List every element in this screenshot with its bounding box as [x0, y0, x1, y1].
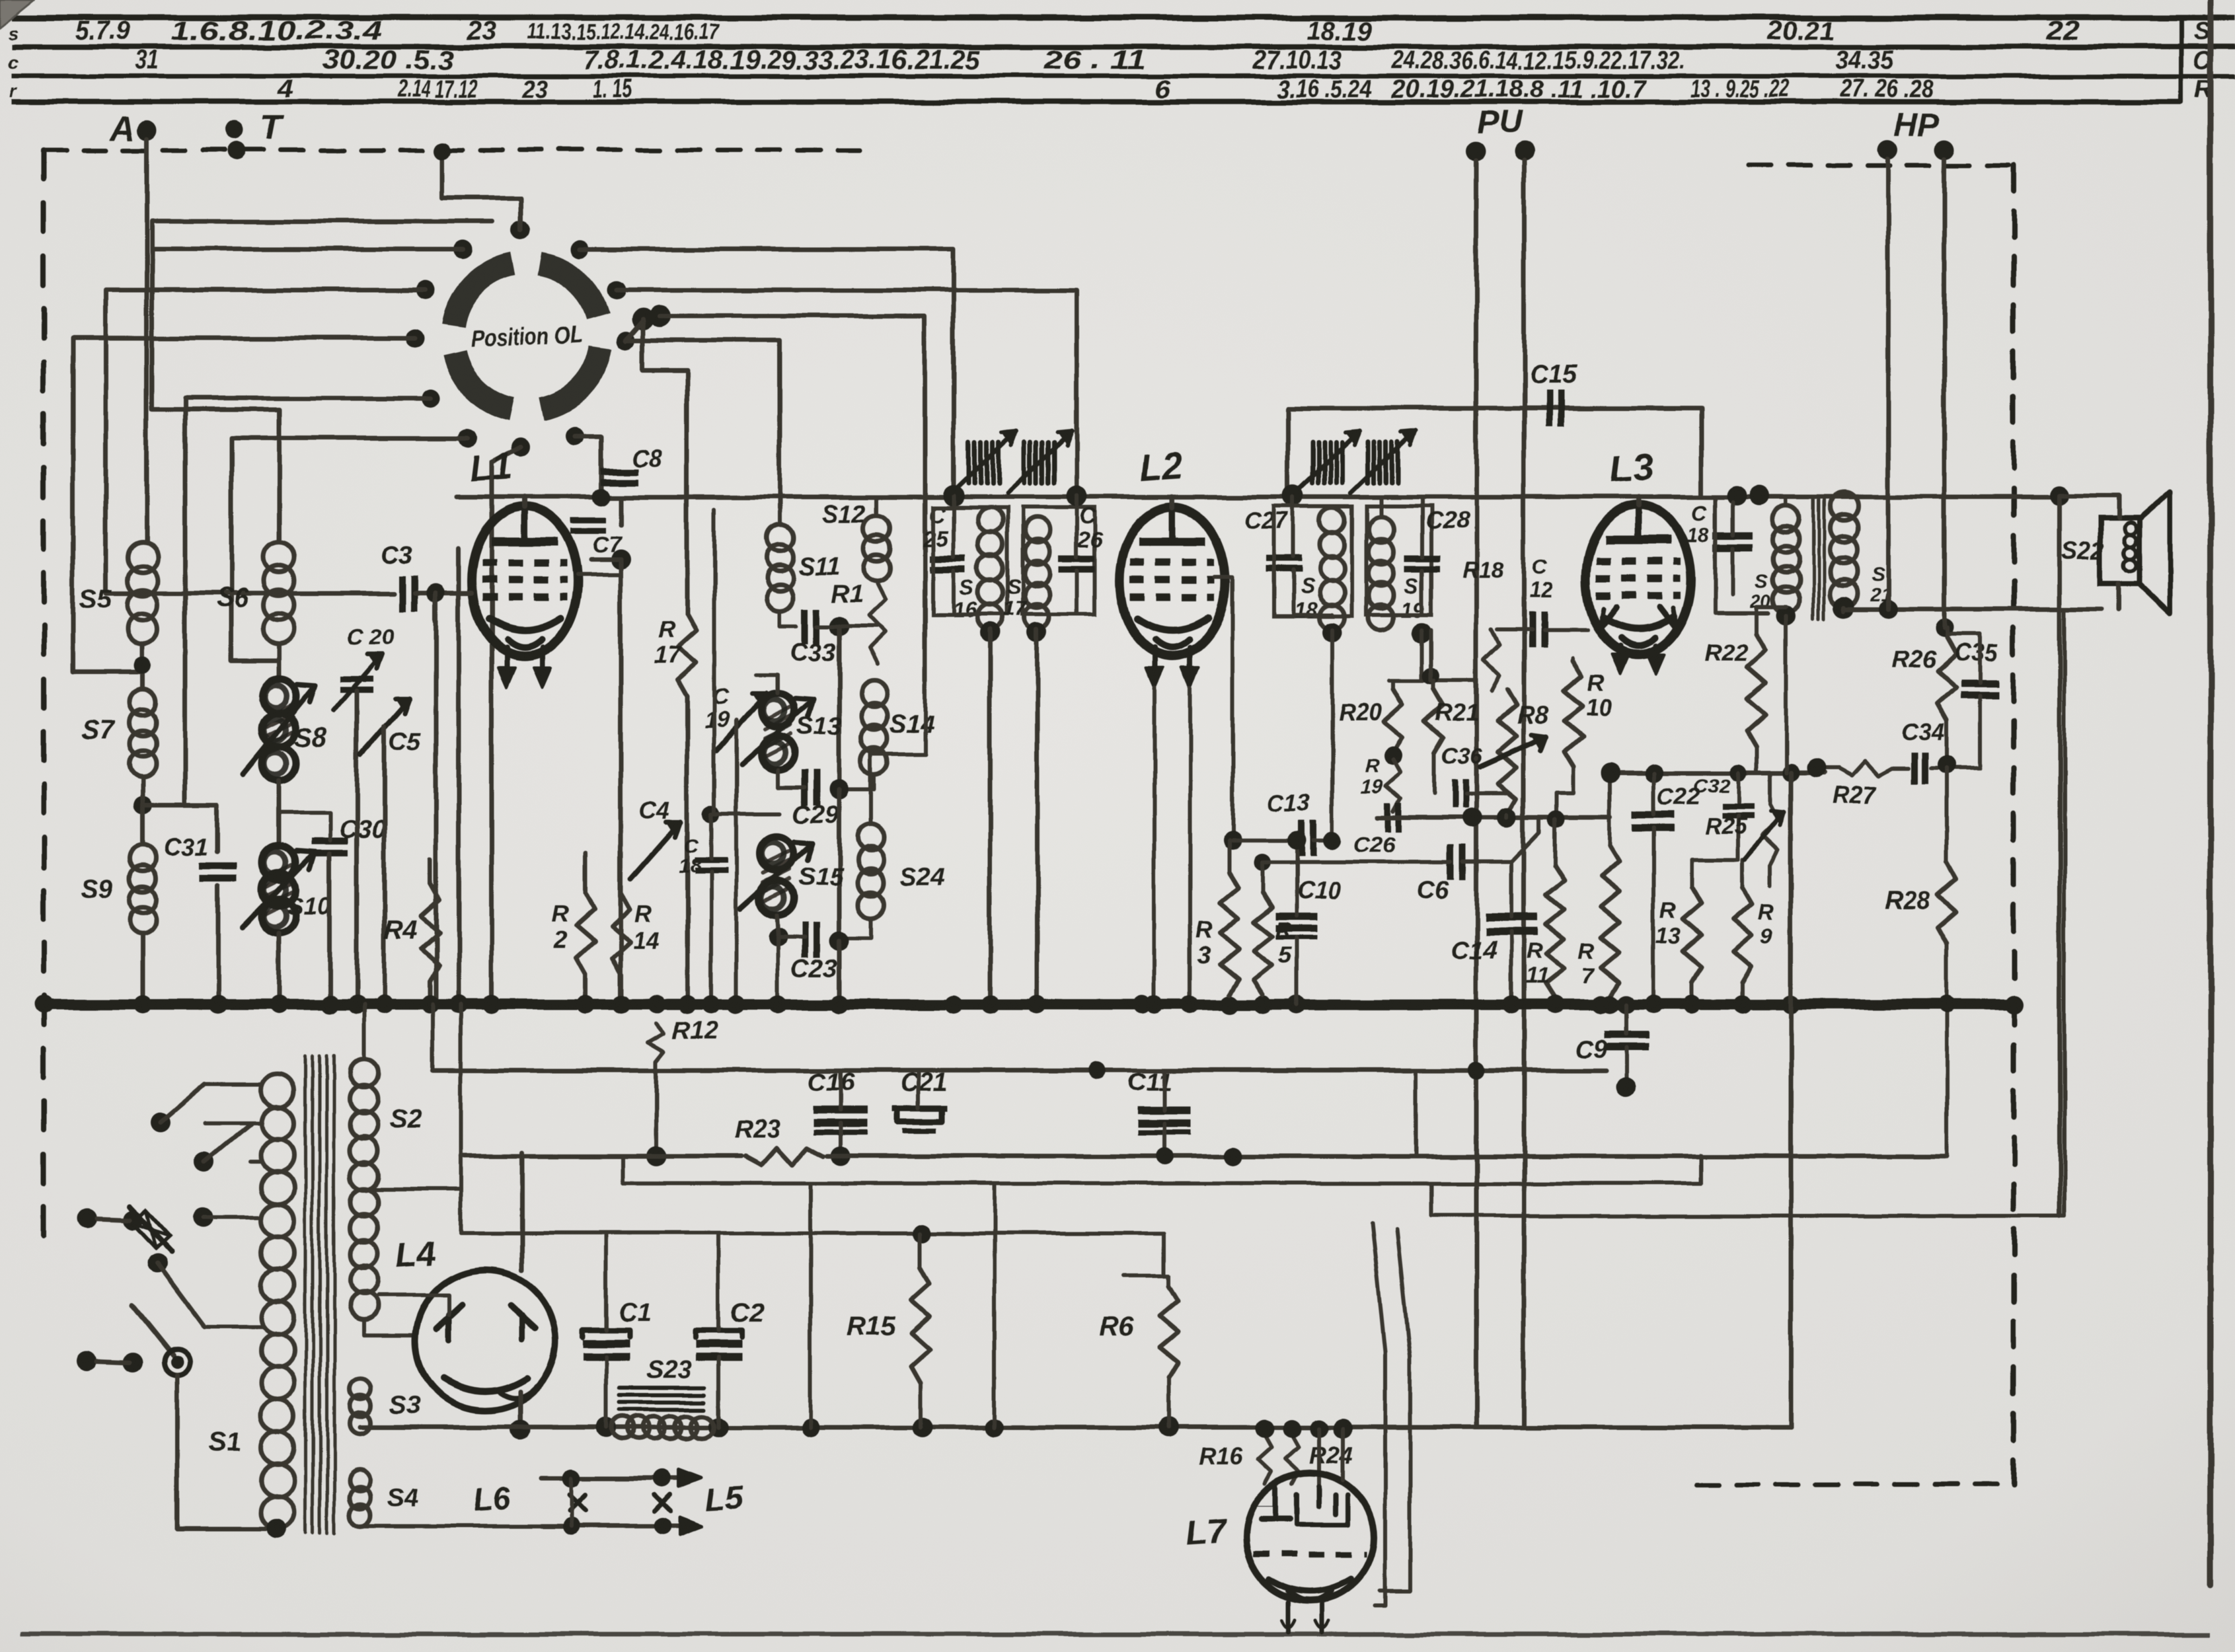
wire — [660, 316, 925, 681]
coil S19 — [1369, 517, 1394, 543]
wire L6 line — [542, 1476, 695, 1481]
rotary switch contact 1 — [511, 221, 530, 239]
rotary switch contact blob — [632, 307, 654, 330]
capacitor C32 — [1722, 804, 1754, 810]
node — [562, 1469, 581, 1487]
wire — [626, 340, 780, 509]
capacitor C20 trimmer — [340, 676, 373, 682]
wire — [1699, 463, 1704, 497]
resistor R6 — [1160, 1286, 1178, 1378]
fuse — [130, 1207, 172, 1252]
wire — [152, 249, 463, 542]
wire — [1610, 771, 1824, 776]
capacitor C18b — [695, 858, 728, 864]
wire — [277, 644, 282, 679]
tube L2 — [1119, 507, 1225, 656]
wire L3 anode up — [1636, 497, 1641, 506]
resistor R25 potentiometer — [1762, 805, 1778, 866]
capacitor C28 — [1404, 555, 1440, 562]
coil S11 — [767, 525, 793, 551]
resistor R28 — [1938, 862, 1956, 944]
terminal A — [137, 120, 157, 140]
wire knot line — [1378, 815, 1610, 820]
node — [563, 1517, 580, 1534]
coil S18 — [1320, 507, 1345, 533]
wire — [1341, 1429, 1345, 1480]
wire — [1716, 497, 1768, 613]
coil S17 — [1025, 517, 1050, 543]
wire — [1509, 862, 1513, 917]
wire — [459, 1004, 463, 1233]
rotary switch contact 7 — [511, 438, 529, 457]
wire — [837, 789, 842, 942]
IF can box S19 — [1367, 506, 1431, 615]
wire L5 line — [542, 1524, 695, 1528]
wire — [808, 1183, 812, 1427]
node — [913, 1224, 932, 1242]
wire — [1768, 773, 1772, 805]
wire — [141, 934, 145, 1004]
resistor R7 — [1601, 846, 1619, 998]
wire — [952, 496, 956, 557]
capacitor C9 — [1605, 1032, 1648, 1039]
wire — [1947, 634, 1980, 682]
trimmer cap 2 — [1022, 442, 1027, 483]
wire — [580, 249, 954, 496]
wire — [1429, 1183, 1433, 1216]
resistor R10 — [1564, 661, 1583, 767]
wire — [1291, 497, 1295, 557]
coil S3 — [350, 1378, 371, 1400]
tube L3 arrows below — [1618, 646, 1623, 670]
wire — [992, 1183, 996, 1427]
tube L7 grid dashes — [1253, 1552, 1367, 1558]
wire — [1432, 753, 1436, 793]
dashed frame left side — [41, 150, 46, 1257]
capacitor C27 — [1266, 555, 1302, 562]
speaker S22 coil box — [2100, 518, 2139, 583]
coil S10 (iron core) — [262, 845, 296, 880]
rotary switch contact 8 — [566, 427, 584, 445]
wire — [776, 770, 780, 788]
terminal PU left — [1466, 141, 1486, 161]
coil S7 — [130, 689, 156, 715]
wire — [277, 781, 282, 845]
resistor R14 — [612, 893, 630, 975]
wire — [457, 548, 461, 1004]
wire — [1608, 773, 1612, 846]
switch contact pair — [77, 1351, 96, 1370]
capacitor C35 — [1961, 679, 1999, 687]
wire — [643, 319, 687, 614]
capacitor C16 — [814, 1106, 867, 1114]
wire PU left down — [1474, 160, 1479, 1427]
wire — [570, 1478, 574, 1526]
wire long line y1620 — [433, 1069, 1606, 1073]
wire — [617, 290, 1077, 496]
trimmer cap 1 — [967, 442, 971, 483]
wire — [1736, 816, 1740, 859]
wire — [431, 1004, 435, 1070]
wire — [1330, 630, 1334, 841]
wire — [1075, 496, 1079, 557]
terminal T lower dot — [227, 141, 246, 160]
coil S1 primary — [261, 1074, 294, 1107]
wire — [152, 221, 493, 249]
wire — [428, 859, 433, 883]
rotary switch contact 4 — [406, 329, 424, 348]
capacitor C3 — [399, 576, 406, 611]
wire — [777, 915, 778, 937]
rotary switch contact 3 — [416, 281, 435, 299]
tube L2 cathode arrows — [1152, 648, 1157, 683]
capacitor C7 — [570, 517, 606, 523]
wire — [355, 691, 360, 1004]
node — [829, 779, 849, 799]
IF can box S18 — [1274, 506, 1352, 616]
wire — [1232, 839, 1301, 843]
switch contact — [194, 1152, 214, 1172]
coil S20 — [1773, 506, 1799, 532]
x mark — [570, 1495, 586, 1511]
wire L2 anode up — [1170, 497, 1175, 507]
coil S8 (iron core) — [262, 679, 296, 713]
capacitor C15 — [1546, 391, 1552, 426]
node — [1223, 1147, 1242, 1166]
coil S5 — [128, 542, 158, 572]
wire — [279, 813, 330, 841]
wire — [619, 852, 624, 893]
wire — [1651, 773, 1655, 815]
node — [646, 1146, 666, 1166]
resistor R19 — [1386, 760, 1400, 811]
wire — [177, 1376, 276, 1529]
node — [1384, 747, 1402, 765]
page right edge — [2208, 0, 2214, 1586]
wire — [1391, 681, 1395, 689]
resistor R3 — [1220, 872, 1238, 995]
wire R27 line — [1811, 767, 1838, 770]
wire switch bottom to bus — [492, 447, 520, 1004]
wire main signal line — [456, 495, 2060, 500]
IF can box S17 — [1023, 507, 1094, 615]
wire — [1731, 548, 1735, 595]
node — [596, 1417, 616, 1437]
page corner mark — [0, 0, 34, 28]
node — [1833, 597, 1854, 618]
node — [1879, 600, 1897, 619]
resistor R23 — [745, 1148, 823, 1165]
wire — [837, 941, 842, 1004]
capacitor C33 — [802, 609, 808, 644]
wire — [1505, 815, 1509, 817]
capacitor C5 trimmer — [361, 699, 410, 755]
wire — [619, 497, 623, 525]
capacitor C8 — [601, 469, 638, 475]
node — [1322, 622, 1342, 642]
node — [1156, 1148, 1173, 1165]
wire R25 arrow — [1745, 813, 1784, 859]
tube L7 legs — [1287, 1602, 1291, 1632]
wire — [734, 720, 738, 1004]
node — [829, 617, 849, 636]
resistor R2 — [576, 893, 595, 975]
wire long line y1750 — [461, 1154, 741, 1159]
node — [1601, 763, 1620, 783]
wire — [415, 591, 472, 596]
wire — [1153, 687, 1156, 1004]
wire — [1227, 841, 1231, 872]
wire L4 to S2 — [378, 1295, 449, 1315]
wire — [434, 593, 438, 621]
wire long line y1866 — [461, 1231, 1164, 1235]
wire — [73, 338, 415, 671]
wire C31 branch — [143, 805, 218, 852]
wire L1 anode up — [522, 497, 527, 507]
wire — [1553, 819, 1557, 866]
wire — [1784, 497, 1788, 506]
node — [831, 1146, 851, 1166]
capacitor C6 — [1447, 845, 1454, 880]
node — [943, 485, 964, 506]
wire — [1698, 1155, 1702, 1183]
coil S9 — [130, 845, 156, 872]
wire — [1556, 767, 1573, 817]
node — [769, 928, 787, 946]
resistor R22 — [1747, 634, 1766, 747]
wire — [1261, 862, 1265, 893]
wire — [1389, 679, 1474, 683]
coil S2 — [350, 1059, 378, 1087]
wire — [1511, 817, 1540, 862]
wire — [231, 438, 468, 679]
resistor R8 — [1498, 689, 1517, 815]
switch contact pair — [77, 1209, 96, 1228]
IF can box S16 — [933, 507, 1007, 615]
wire L4 bottom — [518, 1391, 523, 1427]
wire L2 grid right — [1215, 578, 1232, 841]
node — [593, 488, 610, 506]
wire — [839, 1070, 843, 1110]
resistor R26 — [1938, 638, 1956, 720]
switch contact — [150, 1113, 170, 1133]
switch contact — [192, 1208, 212, 1228]
terminal HP left — [1878, 139, 1898, 159]
node — [1066, 486, 1087, 507]
wire long line y1791 — [623, 1182, 1700, 1185]
capacitor C36 — [1453, 778, 1458, 807]
node — [1283, 485, 1304, 506]
node — [1423, 667, 1440, 685]
coil S16 — [977, 507, 1003, 533]
node — [266, 1519, 286, 1539]
capacitor C22 — [1632, 811, 1675, 819]
wire — [277, 934, 282, 1004]
node — [1088, 1062, 1106, 1079]
node — [134, 656, 151, 673]
rotary switch contact 9 — [617, 331, 635, 350]
wire — [205, 1082, 262, 1086]
capacitor C31 — [200, 863, 237, 870]
node — [2050, 486, 2070, 506]
resistor R9 — [1733, 887, 1752, 983]
ruler top line — [12, 15, 2235, 21]
node — [1938, 996, 1955, 1013]
node — [1287, 831, 1306, 850]
resistor R21 — [1425, 689, 1443, 753]
capacitor C23 — [802, 922, 808, 957]
wire — [578, 560, 621, 575]
wire — [1162, 1233, 1166, 1275]
wire — [1162, 1070, 1166, 1110]
node on dashed line — [434, 142, 451, 159]
terminal T — [225, 120, 243, 139]
wire — [1295, 841, 1299, 915]
speaker S22 horn — [2139, 492, 2170, 613]
coil S24 — [858, 825, 884, 851]
transformer core — [1812, 498, 1815, 619]
capacitor C25 — [930, 555, 966, 562]
choke S23 winding — [611, 1416, 634, 1439]
transformer core — [304, 1056, 307, 1533]
node — [1776, 606, 1796, 626]
tube L3 inner arrows — [1599, 607, 1616, 629]
node — [1028, 622, 1047, 642]
node — [980, 622, 1000, 642]
resistor R5 — [1254, 893, 1272, 995]
bus junction dots — [34, 995, 53, 1014]
capacitor C11 — [1138, 1106, 1191, 1114]
capacitor C19 trimmer — [717, 693, 767, 750]
wire R8 arrow — [1480, 737, 1546, 767]
wire — [434, 593, 439, 1004]
terminal HP right — [1934, 139, 1954, 159]
tube L1 cathode arrows — [504, 648, 510, 683]
dashed frame bottom right part — [1697, 1483, 2014, 1487]
wire — [1167, 1275, 1171, 1286]
wire — [141, 644, 145, 689]
wire — [778, 509, 782, 525]
dashed frame top left part — [44, 148, 859, 153]
dashed frame top right part — [1749, 163, 2014, 168]
tube L1 — [472, 507, 578, 656]
wire — [1379, 498, 1383, 517]
capacitor C1 — [583, 1339, 629, 1347]
capacitor C10 — [1275, 913, 1318, 920]
node C7 junction — [611, 550, 630, 570]
terminal ring — [164, 1349, 190, 1376]
wire — [1317, 1429, 1321, 1487]
capacitor C4 trimmer — [631, 823, 681, 879]
resistor R17 — [678, 614, 697, 696]
wire — [141, 777, 145, 845]
node — [1727, 486, 1747, 506]
wire — [1414, 1070, 1418, 1155]
wire — [364, 1320, 416, 1335]
tube L7 electrodes — [1273, 1487, 1278, 1520]
rotary switch ring — [539, 264, 598, 316]
ruler line 2 — [12, 44, 2235, 50]
wire — [1420, 630, 1424, 681]
ruler right border — [2179, 18, 2183, 102]
capacitor C26 — [1059, 555, 1094, 562]
coil S4 — [350, 1470, 371, 1491]
wire — [1690, 859, 1694, 887]
wire — [362, 1004, 366, 1059]
rotary switch contact 2 — [453, 240, 472, 258]
node — [1462, 807, 1482, 827]
wire S4 line — [360, 1524, 542, 1528]
coil S14 — [861, 681, 888, 707]
tube L3 — [1585, 505, 1691, 654]
wire — [1466, 791, 1507, 795]
rotary switch contact 11 — [570, 240, 589, 258]
main ground bus — [44, 999, 2014, 1010]
capacitor C13 — [1298, 821, 1305, 856]
wire PU right down — [1522, 160, 1527, 1427]
node — [1254, 854, 1271, 871]
resistor R12 — [648, 1024, 664, 1062]
node — [510, 1420, 530, 1440]
tube L4 — [416, 1270, 556, 1410]
resistor R16 — [1258, 1435, 1271, 1483]
wire — [847, 774, 874, 789]
wire — [817, 624, 877, 628]
wire S21 bottom line — [1844, 607, 2102, 612]
resistor R15 — [911, 1267, 930, 1383]
wire long line y1840 — [1431, 1214, 2065, 1218]
wire HP right down — [1942, 159, 1947, 628]
switch lever to terminal — [132, 1305, 173, 1356]
wire — [1945, 628, 1949, 638]
wire — [205, 1325, 264, 1329]
trimmer cap 3 — [1310, 442, 1315, 483]
node — [133, 796, 152, 814]
wire — [875, 497, 879, 515]
wire — [654, 1062, 658, 1156]
wire — [776, 674, 780, 693]
resistor R24 — [1285, 1435, 1299, 1483]
wire — [871, 681, 925, 825]
coil S6 — [264, 542, 294, 572]
resistor R27 — [1838, 761, 1891, 776]
rotary switch contact 10 — [607, 281, 626, 299]
node — [426, 584, 445, 603]
capacitor C34 — [1911, 753, 1918, 784]
tube L7 — [1246, 1473, 1374, 1601]
wire A down — [145, 139, 149, 542]
wire grid line L3 — [1497, 628, 1532, 632]
wire — [1263, 860, 1451, 864]
wire — [1789, 773, 1794, 1427]
capacitor C2 — [695, 1339, 741, 1347]
wire tap lines — [205, 1121, 262, 1125]
resistor R4 — [421, 883, 439, 981]
node — [702, 806, 720, 823]
wire — [1842, 607, 1846, 611]
wire — [2058, 496, 2063, 1216]
capacitor C30 — [311, 838, 348, 845]
resistor R13 — [1683, 887, 1701, 983]
wire — [716, 1233, 720, 1330]
resistor R1 — [869, 584, 885, 664]
wire — [604, 1233, 608, 1330]
wire — [1572, 658, 1575, 661]
wire — [1945, 769, 1949, 862]
capacitor C29 — [802, 770, 808, 806]
wire — [382, 727, 387, 1004]
wire — [847, 918, 871, 938]
